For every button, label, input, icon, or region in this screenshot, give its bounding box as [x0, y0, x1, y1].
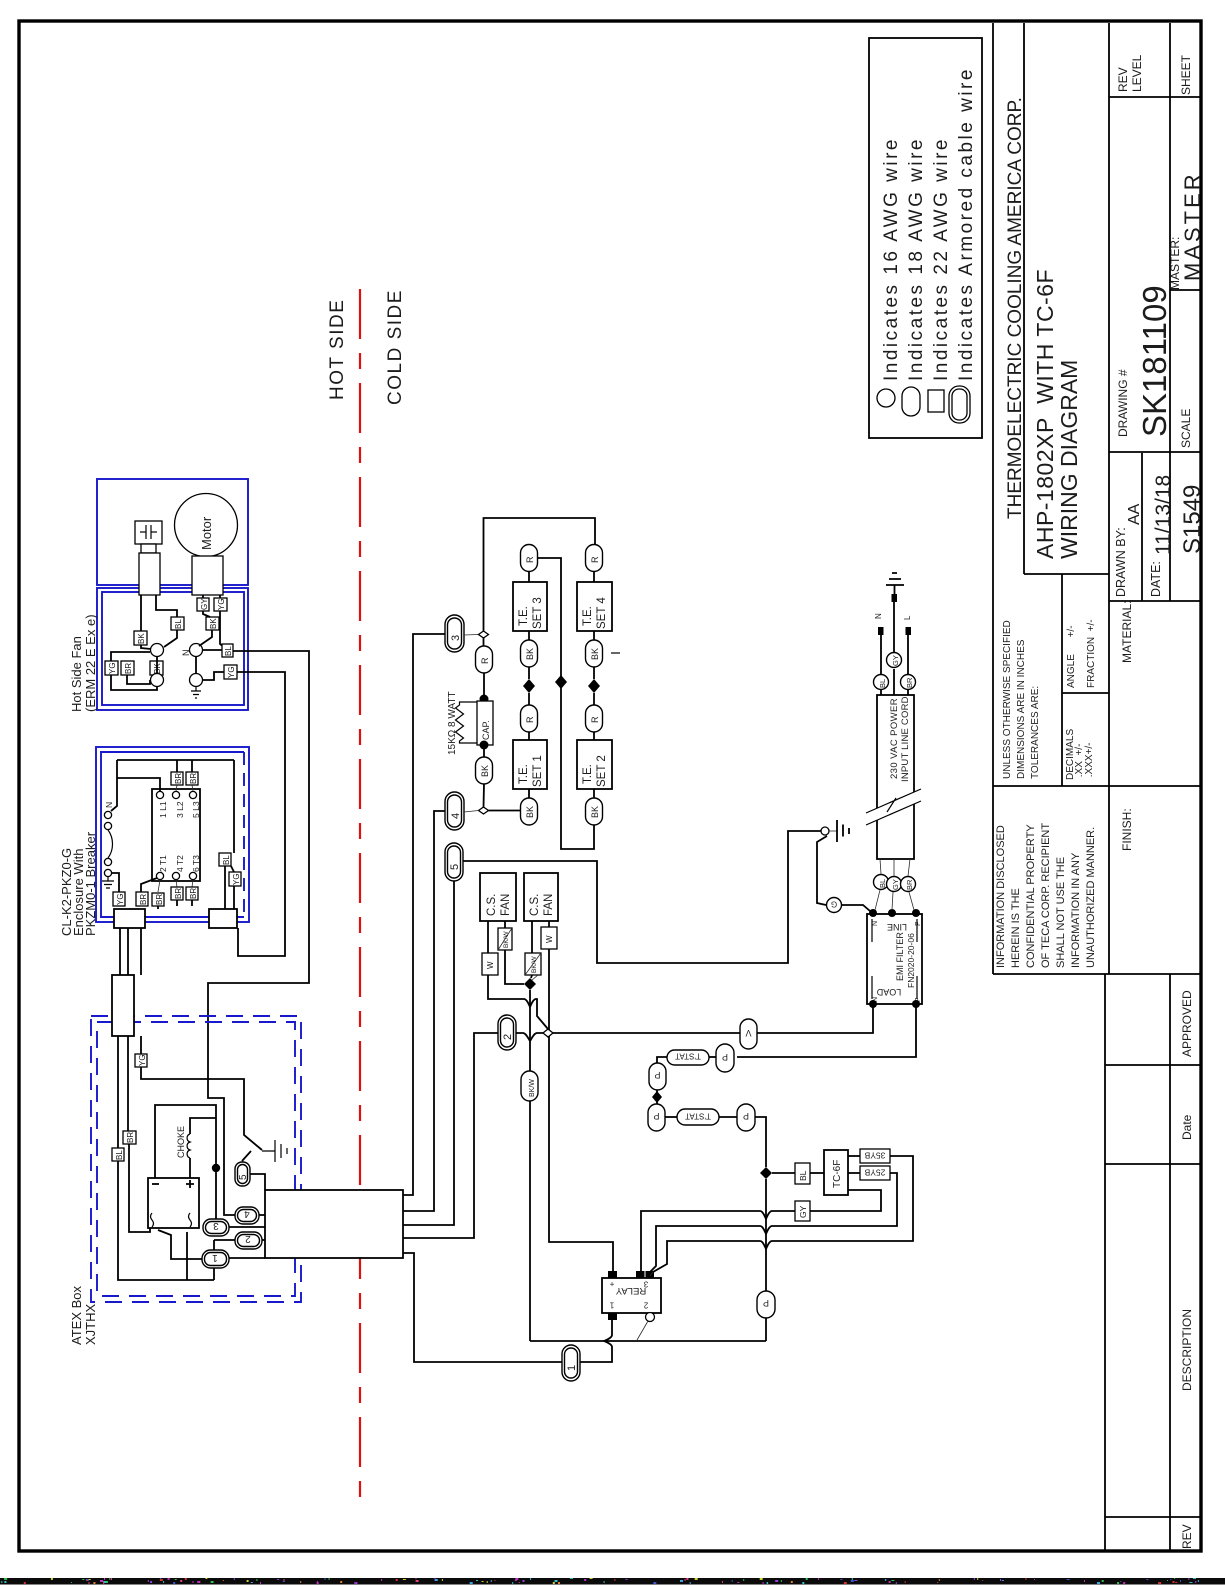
hot/cold divider red dashed line [359, 289, 361, 1502]
wire fan bl to circle1 [164, 630, 177, 647]
svg-text:DRAWN BY:: DRAWN BY: [1114, 527, 1128, 597]
wire R to box2 [593, 732, 595, 740]
connector 1 [562, 1345, 580, 1381]
svg-text:SK181109: SK181109 [1136, 285, 1173, 437]
svg-text:5: 5 [449, 864, 461, 870]
svg-text:SET 1: SET 1 [532, 755, 544, 787]
label BK/W box fan1 [498, 928, 512, 950]
svg-text:WIRING DIAGRAM: WIRING DIAGRAM [1056, 360, 1082, 559]
wire cord box leads to circles [880, 859, 910, 876]
svg-text:BK: BK [525, 806, 535, 818]
svg-text:EMI FILTER: EMI FILTER [895, 932, 905, 981]
power cord BL circle [874, 875, 889, 890]
breaker terminal 3L2 [172, 791, 179, 798]
cord N blade [878, 627, 884, 635]
fan terminal circle 3 [151, 674, 164, 687]
title block line: rev table left edge [1104, 974, 1106, 1550]
breaker terminal 4T2 [172, 872, 179, 879]
legend symbol 16awg circle [877, 389, 895, 407]
label P oval c [648, 1104, 665, 1131]
svg-text:T'STAT: T'STAT [685, 1112, 711, 1121]
svg-text:YG: YG [227, 666, 236, 678]
label BK/W box fan2 [525, 953, 541, 975]
svg-text:1 L1: 1 L1 [158, 801, 168, 818]
svg-text:YG: YG [116, 893, 125, 905]
svg-text:11/13/18: 11/13/18 [1152, 475, 1175, 555]
svg-text:COLD SIDE: COLD SIDE [385, 289, 406, 405]
label BR breaker top b [186, 772, 198, 785]
svg-text:(ERM 22 E Ex e): (ERM 22 E Ex e) [83, 614, 98, 712]
wire bridge to connector 2 [403, 1033, 498, 1238]
svg-text:RELAY: RELAY [615, 1285, 646, 1296]
svg-text:HEREIN IS THE: HEREIN IS THE [1010, 888, 1022, 968]
label R oval TE3 [521, 545, 538, 572]
text ac terminal 1 [151, 1213, 154, 1227]
wire leader conn3 to diamond [464, 634, 479, 637]
wire fan cap lead to bk [140, 595, 142, 631]
svg-text:BK: BK [525, 648, 535, 660]
wire fan BL exit run to right and down [208, 651, 309, 1215]
svg-text:W: W [486, 961, 495, 969]
svg-text:BR: BR [174, 888, 183, 899]
svg-text:FAN: FAN [543, 894, 555, 916]
label BK oval TE4 [586, 640, 603, 667]
label YG atex [135, 1054, 147, 1067]
capacitor C1 body [139, 553, 160, 595]
wire fan N circle to BL exit [203, 649, 222, 651]
svg-text:BR: BR [139, 894, 148, 905]
svg-text:THERMOELECTRIC COOLING AMERICA: THERMOELECTRIC COOLING AMERICA CORP. [1005, 97, 1026, 519]
power cord box [877, 695, 914, 859]
label V oval [740, 1019, 757, 1049]
wire TE top loop [484, 518, 596, 631]
wire fan internal yg down [220, 611, 225, 648]
svg-text:6 T3: 6 T3 [191, 855, 201, 872]
wire cable to atex 1 [119, 928, 121, 975]
wire minus to oval3 [155, 1105, 216, 1219]
wire breaker right bus down [233, 760, 235, 853]
svg-text:2: 2 [245, 1233, 251, 1244]
svg-text:4 T2: 4 T2 [175, 855, 185, 872]
svg-text:SHALL NOT USE THE: SHALL NOT USE THE [1055, 857, 1067, 968]
wire breaker 1L1 feed [117, 778, 160, 791]
label BK fan lower [150, 661, 163, 675]
svg-text:BR: BR [189, 773, 198, 784]
svg-text:N: N [874, 613, 883, 619]
wire cord GY top [893, 601, 895, 695]
junction dot atex [212, 1164, 220, 1172]
title block line: date col bottom [1105, 1163, 1201, 1165]
wire fan2 right lead [548, 921, 550, 927]
breaker terminal 1L1 [156, 791, 163, 798]
capacitor CAP box [477, 701, 493, 745]
title block line: title cell bottom [1024, 573, 1109, 575]
connector 2 [498, 1015, 516, 1050]
label BR breaker bottom a [171, 887, 183, 900]
wire oval3 right [229, 1226, 265, 1228]
wire fan circle N to circle4 [195, 657, 197, 673]
label P oval e [757, 1291, 775, 1318]
svg-text:BR: BR [189, 888, 198, 899]
junction dot resistor bottom [480, 741, 489, 750]
svg-text:3: 3 [643, 1280, 648, 1289]
choke L1 [187, 1134, 190, 1158]
label P oval d [737, 1104, 755, 1131]
label BK/W oval [521, 1071, 538, 1101]
label BR breaker top a [171, 772, 183, 785]
wire bridge to connector 4 [403, 811, 445, 1211]
hot side fan outer enclosure (blue) upper [97, 479, 248, 585]
node diamond at connector 4 [479, 807, 489, 814]
svg-text:MASTER: MASTER [1180, 171, 1205, 281]
wire box4 to BK [593, 631, 595, 640]
ground lug power [821, 827, 829, 835]
ground symbol in fan box [191, 687, 201, 698]
svg-text:C.S.: C.S. [529, 894, 541, 916]
EMI filter box [867, 914, 922, 1004]
label BL fan exit [222, 644, 233, 657]
wire fan internal bk to N circle [199, 630, 212, 646]
svg-text:HOT SIDE: HOT SIDE [327, 299, 348, 400]
wire conn2 right with hop and diamond [516, 1033, 543, 1041]
node diamond at connector 3 [479, 631, 489, 638]
wire fan YG exit run to breaker stub [237, 672, 285, 956]
wire fan circle3 left [111, 675, 157, 690]
title block line: drawnby/date divider [1141, 453, 1143, 601]
wire br boxes to stub [158, 900, 192, 909]
svg-text:BK/W: BK/W [503, 931, 510, 948]
svg-text:SCALE: SCALE [1179, 409, 1193, 448]
label BR fan lower [121, 661, 134, 675]
wire GY run to relay 3 [641, 1211, 795, 1272]
breaker terminal 6T3 [189, 872, 196, 879]
svg-text:W: W [545, 935, 554, 943]
svg-text:T.E.: T.E. [518, 764, 530, 784]
svg-text:BL: BL [224, 646, 233, 656]
wire fan1 left lead [487, 921, 489, 953]
label R oval TE4 [586, 545, 603, 572]
title block line: approved bottom [1105, 1064, 1201, 1066]
svg-text:N: N [872, 921, 879, 926]
svg-text:UNAUTHORIZED MANNER.: UNAUTHORIZED MANNER. [1085, 827, 1097, 968]
breaker terminal 2T1 [156, 872, 163, 879]
svg-text:P: P [915, 921, 922, 926]
svg-text:BL: BL [174, 619, 183, 629]
connector 3 [445, 615, 464, 652]
node diamond tc6f feed [760, 1167, 772, 1179]
svg-text:UNLESS OTHERWISE SPECIFIED: UNLESS OTHERWISE SPECIFIED [1002, 620, 1013, 779]
label YG breaker left [113, 892, 125, 906]
emi inner rails [872, 919, 917, 999]
svg-text:TOLERANCES ARE:: TOLERANCES ARE: [1030, 686, 1041, 779]
label YG fan exit [224, 665, 237, 679]
wire tc6f pin1 [848, 1155, 860, 1157]
svg-text:BR: BR [905, 879, 914, 890]
svg-text:INFORMATION DISCLOSED: INFORMATION DISCLOSED [995, 825, 1007, 968]
svg-text:SHEET: SHEET [1179, 54, 1193, 95]
svg-text:25YB: 25YB [864, 1168, 885, 1178]
wire fan internal gy to bk [203, 611, 210, 617]
wire bridge to connector 3 [403, 634, 445, 1195]
cord break symbol [866, 789, 921, 825]
svg-text:BL: BL [878, 879, 887, 888]
svg-text:FAN: FAN [500, 894, 512, 916]
node diamond mid rail [555, 675, 567, 689]
label BK fan a [206, 617, 219, 630]
wire BL to tc6f [810, 1172, 824, 1174]
node diamond tstat rail [652, 1091, 662, 1103]
svg-text:R: R [525, 716, 535, 723]
bridge junction box [265, 1190, 403, 1258]
wire fan lower br [127, 675, 150, 684]
ground symbol mid [837, 820, 849, 842]
atex oval 2 [235, 1232, 262, 1249]
svg-text:DESCRIPTION: DESCRIPTION [1180, 1309, 1194, 1391]
svg-text:BK: BK [590, 806, 600, 818]
svg-text:CAP.: CAP. [481, 720, 491, 740]
svg-text:BL: BL [222, 855, 231, 865]
power cord BR circle [901, 877, 916, 892]
svg-text:GY: GY [891, 655, 900, 666]
legend symbol 22awg square [928, 390, 944, 412]
wire conn5 to ground run [463, 831, 824, 963]
label BR atex [123, 1131, 136, 1144]
svg-text:BL: BL [878, 679, 887, 688]
label R oval TE1 [521, 705, 538, 732]
title block line: material bottom / decimals bottom [993, 785, 1201, 787]
wire fan2 left lead [531, 921, 533, 953]
legend box [869, 38, 982, 438]
svg-text:Indicates Armored cable wire: Indicates Armored cable wire [956, 67, 977, 381]
wire BK4 to diamond [593, 667, 595, 679]
svg-text:G: G [831, 900, 837, 909]
svg-text:BR: BR [155, 894, 164, 905]
power cord GY circle [887, 877, 902, 892]
label BK oval TE1 [521, 798, 538, 825]
svg-text:Indicates 18 AWG wire: Indicates 18 AWG wire [906, 137, 927, 381]
label BR breaker bottom c [152, 893, 164, 906]
junction dot resistor top [480, 695, 489, 704]
svg-text:P: P [743, 1111, 749, 1121]
label 25YB box [860, 1166, 890, 1180]
wire leader conn4 to diamond [464, 811, 479, 813]
wire diamond3 down to R [483, 638, 485, 646]
wire box1 to BK [528, 789, 530, 798]
svg-text:TC-6F: TC-6F [832, 1160, 843, 1188]
svg-text:ANGLE +/-: ANGLE +/- [1066, 625, 1077, 688]
ATEX cable stub [112, 975, 134, 1036]
fan terminal circle N [190, 644, 203, 657]
svg-text:C.S.: C.S. [486, 894, 498, 916]
svg-text:+: + [609, 1280, 614, 1289]
svg-text:INFORMATION IN ANY: INFORMATION IN ANY [1070, 852, 1082, 968]
svg-text:L: L [903, 615, 912, 620]
svg-text:BK: BK [137, 633, 146, 644]
svg-text:REV: REV [1116, 67, 1130, 92]
svg-text:BL: BL [115, 1150, 124, 1160]
wire yg box down to stub [231, 866, 234, 909]
svg-text:5 L3: 5 L3 [191, 801, 201, 818]
cord BL circle top [874, 675, 889, 690]
wire box2 to BK [593, 789, 595, 798]
label T'STAT oval 2 [677, 1109, 719, 1125]
svg-text:CONFIDENTIAL PROPERTY: CONFIDENTIAL PROPERTY [1025, 824, 1037, 968]
svg-text:T.E.: T.E. [518, 606, 530, 626]
svg-text:DATE:: DATE: [1149, 561, 1163, 597]
atex oval 1 [202, 1250, 229, 1268]
label R oval TE2 [586, 705, 603, 732]
svg-text:REV: REV [1180, 1524, 1194, 1549]
label BK oval cap chain [476, 757, 493, 784]
wire tc6f bottom to GY [810, 1190, 881, 1211]
breaker cable stub right [209, 909, 237, 928]
TE SET 4 box [577, 582, 612, 631]
svg-text:AHP-1802XP WITH TC-6F: AHP-1802XP WITH TC-6F [1032, 269, 1058, 559]
TE SET 3 box [513, 582, 547, 631]
svg-text:SET 4: SET 4 [596, 597, 608, 629]
wire choke to plus [189, 1158, 191, 1178]
wire atex yg chain [141, 1036, 262, 1150]
capacitor C1 neck [141, 544, 156, 553]
svg-text:1: 1 [609, 1301, 614, 1310]
node diamond TE4 chain [588, 679, 600, 693]
svg-text:R: R [480, 657, 490, 664]
wire tstat1 to P left [657, 1057, 667, 1063]
wire br circle to emi [909, 892, 914, 910]
wire TE4 R to box [593, 571, 595, 582]
legend symbol 18awg oval [902, 387, 920, 416]
label BL breaker [219, 853, 231, 866]
wire leader br-a to 3L2 [176, 785, 177, 791]
wire P to tstat2 [665, 1116, 677, 1118]
wire motor lead 2 [219, 595, 221, 598]
wire R to resistor node [483, 673, 485, 699]
relay K1 box [602, 1278, 661, 1313]
wire bkw1 to junction [505, 950, 524, 984]
svg-text:2: 2 [643, 1301, 648, 1310]
wire box3 to BK [528, 631, 530, 640]
polarity dash TE4 [611, 652, 620, 654]
capacitor C1 symbol box [135, 521, 162, 544]
rectifier module box [148, 1178, 199, 1228]
hot side fan enclosure lower inner (blue) [102, 592, 244, 705]
svg-text:BR: BR [174, 773, 183, 784]
wire leader 35yb to relay3 [650, 1272, 653, 1276]
wire diamond down to P [765, 1179, 767, 1291]
wire fan junction down [529, 990, 531, 1071]
label W box fan2 [541, 927, 557, 949]
svg-text:Motor: Motor [199, 516, 214, 550]
svg-text:BK/W: BK/W [531, 956, 538, 973]
wire fan bk to circle1 [141, 645, 151, 649]
text ac terminal 2 [189, 1213, 192, 1227]
svg-text:SET 3: SET 3 [532, 597, 544, 629]
ground symbol cord [886, 573, 904, 594]
breaker enclosure inner dashed (blue) [101, 752, 244, 917]
wire 35YB run to relay 3 [653, 1156, 913, 1272]
svg-text:SET 2: SET 2 [596, 755, 608, 787]
svg-text:YG: YG [108, 662, 117, 674]
svg-text:P: P [763, 1298, 769, 1308]
svg-text:P: P [722, 1052, 728, 1062]
svg-text:DRAWING #: DRAWING # [1116, 369, 1130, 437]
label BL atex [112, 1148, 124, 1161]
label YG fan [214, 598, 227, 611]
wire oval5 right [250, 1174, 265, 1190]
hot side fan enclosure lower outer (blue) [97, 588, 248, 710]
title block line: inner column divider upper [1169, 23, 1171, 601]
label P oval a [716, 1044, 734, 1072]
svg-text:5: 5 [238, 1174, 249, 1180]
wire diamond to R TE2 [593, 693, 595, 705]
ATEX box outer dashed (blue) [91, 1016, 301, 1302]
relay terminal 3 squares [636, 1271, 645, 1278]
svg-text:FRACTION +/-: FRACTION +/- [1086, 619, 1097, 688]
wire br mid up [141, 878, 157, 892]
wire P to diamond rail [755, 1117, 766, 1167]
svg-text:Indicates 22 AWG wire: Indicates 22 AWG wire [931, 137, 952, 381]
svg-text:BR: BR [905, 677, 914, 688]
svg-text:Date: Date [1180, 1114, 1194, 1140]
wire cord BL top [880, 635, 882, 695]
wire atex bl chain [118, 1036, 235, 1280]
svg-text:Indicates 16 AWG wire: Indicates 16 AWG wire [881, 137, 902, 381]
node open diamond W junction [543, 1029, 553, 1037]
svg-text:BK/W: BK/W [529, 1079, 536, 1097]
breaker terminal 5L3 [189, 791, 196, 798]
wire BK to diamond4 [483, 784, 486, 807]
wire gy circle to emi [892, 892, 893, 910]
svg-text:DIMENSIONS ARE IN INCHES: DIMENSIONS ARE IN INCHES [1016, 639, 1027, 779]
ground symbol atex [262, 1140, 287, 1162]
svg-text:2: 2 [502, 1034, 514, 1040]
wire leader 6T3 to br [192, 880, 193, 887]
wire leader 4T2 to br [176, 880, 177, 887]
motor M1 [175, 494, 238, 557]
wire fan circle4 to YG exit [203, 672, 224, 680]
svg-text:1: 1 [212, 1252, 218, 1263]
C.S. FAN box 1 [480, 873, 516, 921]
motor plug body [192, 556, 223, 595]
svg-text:BK: BK [209, 618, 218, 629]
label BK oval TE3 [521, 640, 538, 667]
title block line: rev cell top [1105, 1516, 1201, 1518]
wire bridge to connector 5 [403, 881, 454, 1225]
atex oval 4 [235, 1207, 259, 1224]
wire P to tstat1 [709, 1056, 716, 1058]
svg-text:GY: GY [891, 879, 900, 890]
svg-text:R: R [590, 716, 600, 723]
label YG breaker [229, 872, 241, 886]
breaker enclosure outer (blue) [96, 747, 249, 922]
relay terminal 2 circle [646, 1313, 655, 1322]
svg-text:T'STAT: T'STAT [675, 1052, 701, 1061]
node diamond fan junction [524, 978, 536, 990]
svg-text:4: 4 [244, 1208, 250, 1219]
wire bridge to connector 1 [403, 1253, 562, 1362]
svg-text:ATEX Box: ATEX Box [69, 1285, 84, 1345]
svg-text:AA: AA [1126, 503, 1143, 525]
wire cable to atex 3 [140, 928, 142, 975]
wire oval5 to ground [242, 1151, 251, 1161]
svg-text:BL: BL [798, 1170, 808, 1181]
TE SET 1 box [513, 740, 547, 789]
label 35YB box [860, 1149, 890, 1163]
label YG fan lower [105, 661, 118, 675]
svg-text:N: N [181, 650, 191, 657]
svg-text:BK: BK [590, 648, 600, 660]
ATEX box inner dashed (blue) [97, 1022, 295, 1296]
